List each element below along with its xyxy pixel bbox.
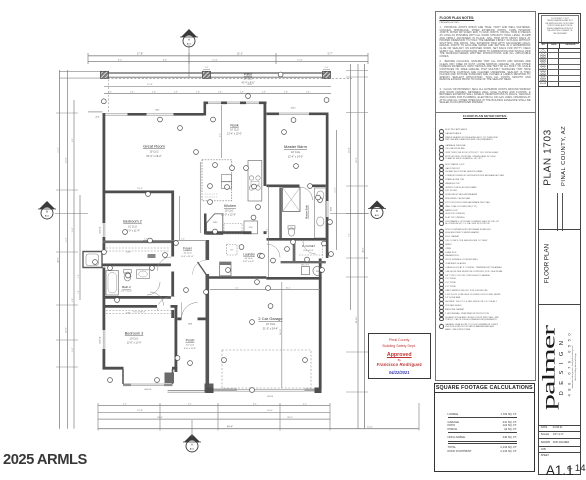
keyed note marker: [158, 117, 163, 122]
svg-text:13'-4": 13'-4": [58, 147, 60, 152]
svg-text:10' CLG: 10' CLG: [230, 129, 239, 132]
keyed note marker: [155, 378, 160, 383]
dim tick bottom: [279, 403, 281, 431]
door arc master bath: [300, 187, 313, 200]
svg-text:17'-8": 17'-8": [137, 53, 143, 56]
keyed note marker: [291, 240, 296, 245]
keyed note marker: [320, 268, 325, 273]
master toilet: [288, 228, 294, 236]
door arc mcloset: [303, 241, 316, 254]
dashed separation line: [437, 60, 439, 330]
svg-text:8'-4": 8'-4": [253, 403, 257, 405]
svg-text:DRY: DRY: [230, 250, 235, 252]
notes panel: [435, 11, 536, 381]
right dim tick: [346, 213, 368, 215]
svg-text:19'-0": 19'-0": [66, 327, 68, 333]
keyed note marker: [174, 241, 179, 246]
svg-text:21'-0" x 24'-4": 21'-0" x 24'-4": [263, 327, 278, 330]
right dim tick: [346, 351, 368, 353]
closet rod dashed: [106, 247, 170, 249]
section marker B/A4.1: [38, 71, 386, 452]
dim line kitchen west: [199, 162, 201, 233]
approval stamp: [368, 333, 432, 379]
wall: garage south (stem): [206, 389, 322, 392]
bath2 tub: [106, 271, 118, 296]
garage door dashed outline: [222, 350, 311, 388]
svg-text:2'-8": 2'-8": [240, 91, 244, 93]
svg-text:5'-4": 5'-4": [123, 403, 127, 405]
dim tick bottom: [418, 403, 420, 431]
keyed note marker: [250, 388, 255, 393]
keyed note marker: [266, 286, 271, 291]
svg-text:15'-4" x 19'-2": 15'-4" x 19'-2": [146, 155, 161, 158]
keyed note marker: [294, 164, 299, 169]
svg-text:Porch: Porch: [186, 339, 195, 343]
window 4040SL: bedroom3 west: [102, 330, 106, 349]
svg-text:A4.1: A4.1: [190, 447, 195, 450]
keyed note marker: [255, 280, 260, 285]
section cut line left: [55, 213, 88, 215]
svg-text:10' CLG: 10' CLG: [186, 345, 194, 347]
section marker B/A4.1: [83, 71, 386, 452]
keyed note marker: [291, 118, 296, 123]
svg-text:4030: 4030: [331, 207, 333, 211]
svg-text:14'-0": 14'-0": [335, 187, 337, 192]
svg-text:16'-1": 16'-1": [286, 288, 291, 290]
left dim tick: [56, 304, 78, 306]
keyed note marker: [208, 184, 213, 189]
svg-text:16070: 16070: [267, 396, 274, 398]
floor plan notes heading: [440, 16, 475, 20]
keyed note marker: [225, 185, 230, 190]
patio post hatched left: [101, 71, 109, 78]
keyed note marker: [108, 266, 113, 271]
water softener: [302, 267, 310, 275]
svg-text:11'-0": 11'-0": [297, 59, 303, 61]
keyed note marker: [318, 198, 323, 203]
kitchen east counter: [248, 161, 262, 202]
svg-text:18'-0": 18'-0": [157, 417, 163, 419]
keyed note marker: [256, 205, 261, 210]
keyed note marker: [268, 304, 273, 309]
water heater: [313, 266, 322, 275]
patio overhang dashed line: [100, 78, 352, 80]
closet shelf dashed bed3: [106, 313, 172, 315]
svg-text:A4.1: A4.1: [187, 42, 192, 45]
section cut line bottom: [191, 420, 193, 437]
svg-text:Kitchen: Kitchen: [224, 204, 236, 208]
keyed note marker: [150, 266, 155, 271]
right dim tick: [346, 112, 368, 114]
info table: [539, 425, 580, 426]
svg-text:6'-0" x 11'-6": 6'-0" x 11'-6": [184, 348, 196, 350]
svg-text:10' CLG: 10' CLG: [184, 252, 192, 254]
dim line left small: [79, 195, 81, 300]
wall: nook north with windows: [204, 102, 267, 105]
svg-text:9'-2": 9'-2": [163, 59, 168, 61]
svg-text:Laundry: Laundry: [243, 252, 255, 256]
patio roof edge bottom: [100, 76, 331, 78]
right dim tick: [346, 76, 368, 78]
svg-text:2'-8": 2'-8": [218, 91, 222, 93]
svg-text:3068: 3068: [188, 323, 192, 325]
svg-text:10' CLG: 10' CLG: [291, 151, 300, 154]
svg-text:4030: 4030: [126, 251, 130, 253]
dim tick bottom: [97, 403, 99, 431]
kitchen island counter: [202, 160, 232, 201]
dim line right small: [336, 130, 338, 250]
wall: master north: [267, 113, 329, 116]
bath2 shower bump-out: [83, 252, 102, 268]
svg-text:A: A: [191, 442, 193, 446]
svg-text:Bedroom 3: Bedroom 3: [125, 332, 144, 336]
entry door leaf: [181, 303, 183, 319]
svg-text:11'-0": 11'-0": [212, 59, 218, 61]
keyed note marker: [285, 247, 290, 252]
svg-text:Great Room: Great Room: [143, 144, 165, 149]
dim line patio row2: [104, 92, 331, 94]
keyed note marker: [271, 258, 276, 263]
dim line left outer: [59, 70, 61, 429]
master vanity: [315, 188, 326, 238]
dim tick bottom: [329, 403, 331, 431]
dim line top overall: [88, 55, 368, 57]
svg-text:10' CLG: 10' CLG: [130, 337, 139, 340]
keyed note marker: [126, 273, 131, 278]
dim line bottom r1: [98, 405, 330, 407]
ARMLS watermark: [3, 451, 87, 468]
shower with cross: [283, 188, 301, 212]
wall: great room north: [103, 113, 204, 116]
svg-text:12'-4" x 14'-0": 12'-4" x 14'-0": [288, 156, 303, 159]
keyed note marker: [308, 184, 313, 189]
svg-text:11'-4": 11'-4": [72, 227, 74, 232]
bath2 vanity sink: [137, 270, 150, 279]
svg-text:Foyer: Foyer: [183, 247, 193, 251]
square footage table: [434, 383, 536, 472]
closet rod dashed bed3: [106, 310, 172, 312]
revision delta triangles: [539, 48, 547, 86]
svg-text:2'-2": 2'-2": [235, 288, 239, 290]
counter along foyer north: [224, 224, 242, 234]
dim tick bottom: [217, 403, 219, 431]
garage interior dim line: [210, 289, 320, 291]
keyed note marker: [258, 253, 263, 258]
svg-text:11'-4": 11'-4": [66, 237, 68, 242]
garage north wall: [266, 277, 321, 280]
dim tick: [87, 53, 89, 64]
keyed note marker: [213, 229, 218, 234]
svg-text:REF: REF: [249, 227, 254, 229]
keyed note marker: [102, 250, 107, 255]
svg-text:11'-4": 11'-4": [72, 347, 74, 352]
svg-text:21'-1": 21'-1": [237, 53, 243, 56]
svg-text:A4.1: A4.1: [375, 214, 380, 217]
door arc hall upper: [157, 257, 171, 271]
window 4040SL: bedroom2 west: [102, 223, 106, 237]
svg-text:7'-6": 7'-6": [349, 233, 351, 237]
svg-text:A: A: [188, 37, 190, 41]
svg-text:2'-8": 2'-8": [78, 274, 80, 278]
svg-text:9'-2": 9'-2": [72, 138, 74, 142]
washer unit: [220, 262, 231, 276]
keyed note marker: [305, 257, 310, 262]
wall: west (bath2 + bed3): [103, 268, 106, 370]
keyed note marker: [208, 200, 213, 205]
svg-text:12'-0": 12'-0": [66, 157, 68, 163]
svg-text:10' CLG: 10' CLG: [266, 323, 275, 326]
svg-text:5'-0" x 11'-0": 5'-0" x 11'-0": [121, 291, 132, 293]
keyed note marker: [282, 130, 287, 135]
keyed note marker: [260, 254, 265, 259]
dim line left mid: [67, 70, 69, 429]
title block: [538, 13, 581, 476]
left dim tick: [56, 339, 78, 341]
wall: mcloset south: [281, 261, 326, 263]
svg-text:2'-8": 2'-8": [152, 91, 156, 93]
svg-text:5'-8" x 5'-0": 5'-8" x 5'-0": [243, 261, 254, 263]
window 1: great room north: [105, 113, 128, 116]
svg-text:ROD & SHELF: ROD & SHELF: [133, 312, 146, 314]
svg-text:2'-8": 2'-8": [284, 91, 288, 93]
svg-text:19'-4": 19'-4": [349, 147, 351, 153]
wall: foyer south (front door wall): [177, 318, 206, 321]
closet shelf dashed: [106, 250, 170, 252]
keyed note marker: [251, 215, 256, 220]
svg-text:12'-8": 12'-8": [137, 410, 143, 412]
door arc entry: [182, 303, 198, 319]
door arc hall lower: [157, 297, 171, 311]
dim tick: [275, 53, 277, 64]
porch slab edge: [168, 390, 211, 392]
wall: bedroom3 east: [175, 305, 178, 372]
keyed note marker: [226, 268, 231, 273]
keyed note marker: [252, 184, 257, 189]
svg-text:1'-4": 1'-4": [325, 67, 329, 69]
svg-text:5'-8": 5'-8": [72, 298, 74, 302]
garage sw corner block: [206, 388, 214, 394]
keyed note marker: [324, 98, 329, 103]
sheet title section: [539, 229, 580, 230]
palmer design logo: [540, 310, 558, 426]
svg-text:5'-0": 5'-0": [78, 290, 80, 294]
wall: bedroom2 east: [171, 191, 174, 244]
svg-text:10' CLG: 10' CLG: [128, 225, 137, 228]
svg-text:WH: WH: [316, 271, 320, 273]
keyed note marker: [178, 126, 183, 131]
patio roof edge top: [100, 72, 331, 74]
window 4050: master north: [279, 112, 309, 115]
keyed note marker: [328, 220, 333, 225]
keyed note marker: [322, 241, 327, 246]
svg-text:20'-2": 20'-2": [287, 417, 293, 419]
svg-text:Bath 2: Bath 2: [122, 285, 131, 289]
wall: garage east: [319, 259, 322, 390]
svg-text:41'-4" x 8'-0": 41'-4" x 8'-0": [241, 81, 255, 84]
door arc bath2: [147, 282, 160, 295]
keyed note marker: [329, 252, 334, 257]
range burners: [249, 176, 253, 180]
svg-text:A4.1: A4.1: [45, 214, 50, 217]
svg-text:17'-4": 17'-4": [147, 84, 153, 86]
range center box: [251, 182, 259, 186]
svg-text:12'-0" x 12'-9": 12'-0" x 12'-9": [221, 213, 236, 216]
keyed note marker: [211, 117, 216, 122]
svg-text:4050: 4050: [291, 108, 297, 110]
corner pantry: [207, 214, 223, 235]
keyed note marker: [316, 195, 321, 200]
keyed note marker: [230, 166, 235, 171]
svg-text:2'-8": 2'-8": [306, 91, 310, 93]
left dim tick: [56, 251, 78, 253]
hall dim line v: [268, 186, 270, 277]
svg-text:4040 SL: 4040 SL: [99, 225, 101, 233]
garage se corner block: [315, 388, 322, 394]
wall: west (great room + bed2): [103, 113, 106, 252]
bedroom2 closet walls: [103, 241, 172, 244]
dim line patio row1: [104, 85, 331, 87]
dim tick bottom: [159, 403, 161, 431]
plan name section: [543, 122, 554, 192]
keyed note marker: [101, 99, 106, 104]
copyright box: [541, 15, 579, 44]
keyed note marker: [175, 356, 180, 361]
page number 14: [567, 463, 586, 474]
keyed note marker: [246, 94, 251, 99]
dim tie nw: [88, 111, 103, 113]
svg-text:Patio: Patio: [244, 72, 252, 76]
section cut line right: [330, 213, 369, 215]
svg-text:10' CLG: 10' CLG: [149, 151, 158, 154]
svg-text:3'-1": 3'-1": [188, 403, 192, 405]
porch corner post: [165, 373, 175, 384]
svg-text:4'-2": 4'-2": [303, 403, 307, 405]
svg-text:12'-0" x 11'-4": 12'-0" x 11'-4": [127, 342, 142, 345]
svg-text:10' CLG: 10' CLG: [225, 209, 234, 212]
svg-text:Master Bdrm: Master Bdrm: [284, 144, 308, 149]
dim line bottom r3: [98, 418, 330, 420]
svg-text:10'-0": 10'-0": [367, 427, 373, 429]
wall: bedroom2 north: [103, 191, 175, 194]
svg-text:1280: 1280: [155, 109, 160, 111]
dim line great room interior: [221, 105, 223, 158]
svg-text:5'-7": 5'-7": [328, 53, 333, 56]
svg-text:2'-8": 2'-8": [130, 91, 134, 93]
svg-text:B: B: [46, 209, 48, 213]
keyed note marker: [303, 358, 308, 363]
svg-text:44'-0": 44'-0": [58, 257, 60, 263]
svg-text:Nook: Nook: [230, 124, 239, 128]
svg-text:B: B: [376, 209, 378, 213]
wall: bedroom3 north: [103, 305, 178, 308]
keyed note marker: [213, 163, 218, 168]
dim tick: [367, 53, 369, 64]
porch post right: [205, 384, 214, 393]
window 2: great room north: [147, 113, 174, 116]
wall: bath2 south: [103, 296, 175, 299]
section marker A/A4.1: [83, 71, 352, 452]
keyed note marker: [123, 230, 128, 235]
keyed note marker: [148, 238, 153, 243]
svg-text:44'-4": 44'-4": [227, 426, 233, 429]
svg-text:18'-0": 18'-0": [247, 84, 253, 86]
keyed notes heading: [436, 112, 535, 113]
svg-text:4040 SL: 4040 SL: [144, 389, 152, 391]
mcloset shelf: [299, 254, 324, 256]
wall: master bath north: [267, 185, 300, 188]
patio post hatched right: [323, 71, 331, 78]
dim line bottom r2: [98, 411, 330, 413]
svg-text:21'-2": 21'-2": [356, 157, 358, 163]
keyed note marker: [163, 253, 168, 258]
keyed note marker: [188, 361, 193, 366]
dim line bottom outer: [98, 428, 419, 430]
section cut line top: [188, 45, 190, 77]
dim line right a: [350, 64, 352, 310]
dim line left inner: [73, 100, 75, 429]
wall: master east: [326, 113, 329, 259]
kitchen island sink: [222, 175, 232, 182]
dim line top segments: [88, 61, 368, 63]
keyed note marker: [239, 245, 244, 250]
window 4030: master east: [325, 201, 329, 217]
finishing notes paragraphs: [440, 27, 531, 59]
svg-text:2'-0": 2'-0": [181, 239, 185, 241]
svg-text:Master Bath: Master Bath: [305, 204, 309, 219]
wall: master bath south: [267, 238, 327, 241]
keyed note marker: [278, 72, 283, 77]
left dim tick: [56, 112, 78, 114]
svg-text:+6-8: +6-8: [95, 117, 100, 119]
right dim tick: [346, 276, 368, 278]
wall: nook/master divider: [264, 104, 267, 186]
svg-text:3'-0": 3'-0": [267, 228, 269, 232]
island shelf dashes: [205, 193, 218, 195]
svg-text:10' CLG: 10' CLG: [244, 78, 253, 81]
wall: bedroom2 south / bath2 north: [103, 264, 174, 267]
wall: foyer west: [171, 244, 174, 319]
svg-text:24'-10": 24'-10": [356, 316, 358, 323]
keyed note marker: [194, 150, 199, 155]
bath2 toilet: [124, 272, 131, 281]
svg-text:10' CLG: 10' CLG: [245, 258, 253, 260]
tie line patio top: [60, 70, 103, 72]
svg-text:6'-4" x 21'-6": 6'-4" x 21'-6": [181, 256, 193, 258]
svg-text:2'-8": 2'-8": [174, 91, 178, 93]
keyed note marker: [250, 320, 255, 325]
roof line dashed nw: [108, 80, 110, 113]
svg-text:15'-4": 15'-4": [137, 188, 143, 190]
keyed note marker: [184, 288, 189, 293]
svg-text:12'-4" x 10'-6": 12'-4" x 10'-6": [227, 132, 242, 135]
section marker A/A4.1: [38, 29, 386, 452]
wall: foyer/laundry north: [207, 231, 252, 234]
wall: mcloset west: [293, 241, 296, 262]
dim line right b: [357, 64, 359, 429]
hall dim line: [179, 196, 181, 240]
svg-text:2 Car Garage: 2 Car Garage: [258, 316, 283, 321]
keyed note marker: [244, 166, 249, 171]
door arc bedroom3: [150, 292, 164, 306]
wall: pantry west: [204, 214, 207, 235]
right dim tick: [346, 70, 368, 72]
svg-text:9'-2": 9'-2": [220, 133, 222, 137]
right dim tick: [346, 391, 368, 393]
svg-text:21'-0": 21'-0": [267, 410, 273, 412]
right dim tick: [346, 257, 368, 259]
laundry door arc: [267, 244, 281, 258]
wall: nook west jog: [204, 102, 207, 116]
